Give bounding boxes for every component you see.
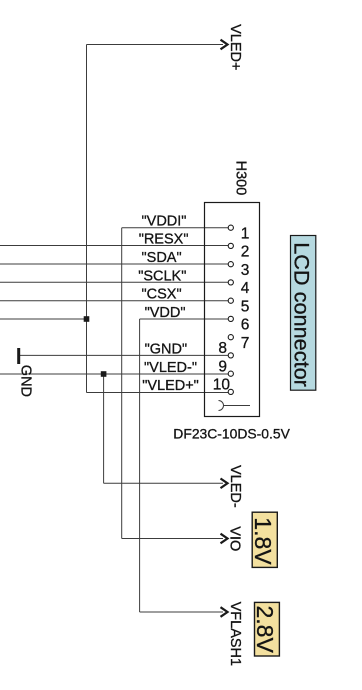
- svg-text:3: 3: [241, 262, 250, 279]
- svg-text:"VLED+": "VLED+": [142, 378, 199, 394]
- wire VDD-VFLASH1 vertical (line D): [139, 319, 141, 612]
- wire CSX: [0, 300, 229, 302]
- svg-text:GND: GND: [17, 365, 33, 397]
- pin 9: [218, 358, 233, 376]
- svg-text:VFLASH1: VFLASH1: [227, 602, 243, 666]
- wire SCLK: [0, 281, 229, 283]
- svg-text:"VLED-": "VLED-": [144, 360, 197, 376]
- svg-text:VLED+: VLED+: [227, 24, 243, 70]
- svg-text:1: 1: [241, 225, 250, 242]
- wire VDDI-VIO vertical (line C): [121, 228, 123, 539]
- svg-text:"CSX": "CSX": [142, 287, 182, 303]
- svg-text:4: 4: [241, 280, 250, 297]
- pin 8: [218, 340, 233, 358]
- svg-text:LCD connector: LCD connector: [290, 242, 315, 387]
- svg-text:10: 10: [213, 377, 231, 394]
- pin 10: [213, 377, 234, 395]
- 1.8V note box: [250, 512, 277, 567]
- wire VDDI horizontal: [122, 227, 229, 229]
- svg-text:"RESX": "RESX": [139, 232, 189, 248]
- pin 1: [228, 225, 249, 242]
- svg-text:VLED-: VLED-: [227, 465, 243, 508]
- svg-text:VIO: VIO: [227, 526, 243, 551]
- svg-text:2: 2: [241, 244, 250, 261]
- ground GND symbol: [17, 348, 33, 397]
- wire VLED+ to pin 10: [87, 392, 229, 394]
- svg-text:"GND": "GND": [145, 341, 188, 357]
- wire RESX: [0, 245, 229, 247]
- wire VLED+ top horizontal: [87, 44, 224, 46]
- wire VLED+ vertical (line A): [86, 45, 88, 393]
- wire VLED+ left stub: [0, 318, 87, 320]
- wire VFLASH1 horizontal: [140, 611, 223, 613]
- pin 7: [228, 335, 249, 352]
- svg-text:8: 8: [218, 340, 227, 357]
- port VLED+ (top): [221, 24, 244, 70]
- svg-text:2.8V: 2.8V: [252, 606, 278, 654]
- pin 5: [228, 298, 249, 315]
- junction on VLED- net: [101, 371, 107, 377]
- pin 4: [228, 280, 250, 297]
- svg-text:"VDD": "VDD": [145, 305, 186, 321]
- svg-text:9: 9: [218, 358, 227, 375]
- port VLED-: [221, 465, 244, 508]
- svg-text:H300: H300: [233, 161, 249, 196]
- wire VDD horizontal: [140, 318, 229, 320]
- pin 3: [228, 262, 249, 279]
- wire SDA: [0, 263, 229, 265]
- svg-text:6: 6: [241, 317, 250, 334]
- junction on VLED+ net: [84, 316, 90, 322]
- svg-text:5: 5: [241, 298, 250, 315]
- 2.8V note box: [252, 602, 279, 656]
- svg-text:"SCLK": "SCLK": [138, 268, 186, 284]
- wire VLED- to port: [104, 482, 223, 484]
- wire GND: [20, 354, 229, 356]
- port VIO: [221, 526, 243, 551]
- connector key arc: [219, 401, 251, 411]
- LCD connector note box: [290, 236, 316, 391]
- svg-text:1.8V: 1.8V: [250, 517, 276, 565]
- pin 6: [228, 316, 249, 333]
- svg-text:DF23C-10DS-0.5V: DF23C-10DS-0.5V: [173, 425, 290, 441]
- connector H300 body: [205, 203, 260, 417]
- wire VLED- vertical (line B): [103, 374, 105, 483]
- wire VIO horizontal: [122, 538, 223, 540]
- svg-text:7: 7: [241, 335, 250, 352]
- svg-text:"VDDI": "VDDI": [142, 214, 187, 230]
- pin 2: [228, 243, 249, 260]
- wire VLED- horizontal: [0, 373, 229, 375]
- svg-text:"SDA": "SDA": [142, 250, 182, 266]
- port VFLASH1: [221, 602, 244, 666]
